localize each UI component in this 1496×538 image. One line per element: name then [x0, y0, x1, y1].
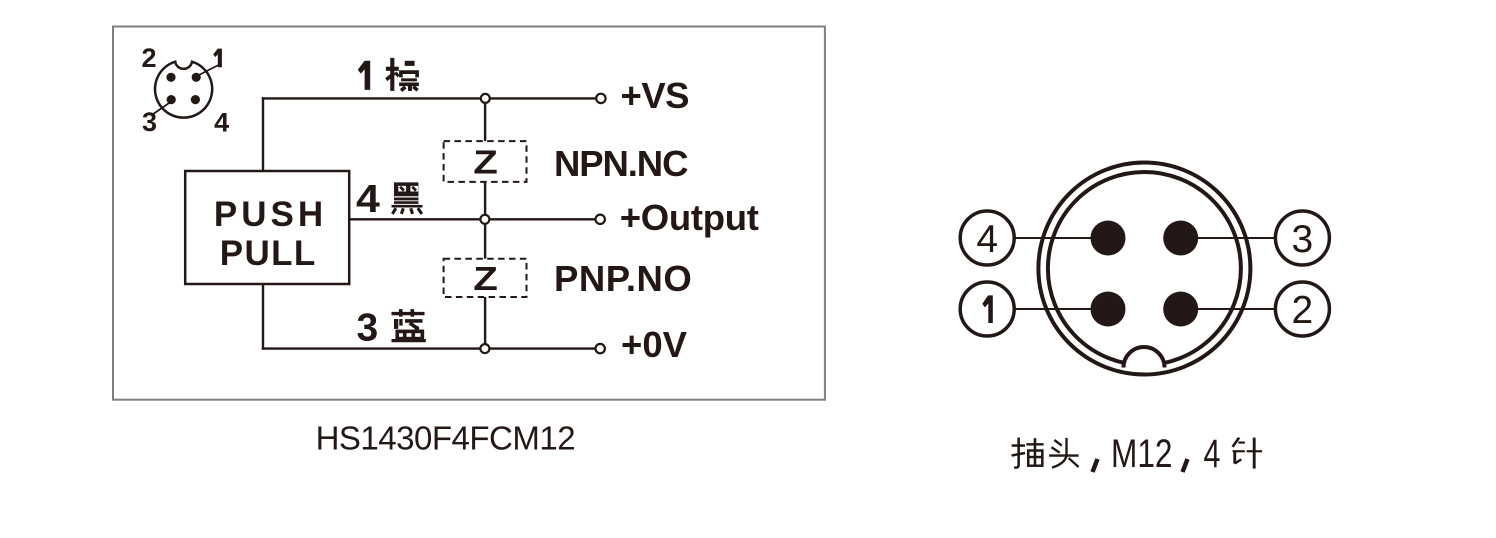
callout circle 3: [1275, 211, 1329, 265]
svg-text:PULL: PULL: [220, 234, 317, 273]
caption text 4: [1204, 431, 1221, 476]
label wire 1 digit: [358, 61, 371, 90]
svg-text:3: 3: [1292, 218, 1314, 261]
M12 plug face: inner ring: [1048, 172, 1241, 365]
leader line pin1: [199, 65, 220, 76]
terminal +0V: [596, 344, 605, 353]
plug pin bottom-left: [1091, 292, 1126, 327]
wire: riser from PUSH PULL top: [262, 97, 264, 171]
comma 2: [1183, 459, 1188, 472]
wire: black (4) output: [349, 218, 596, 220]
wire: riser from PUSH PULL bottom: [262, 284, 264, 350]
svg-text:+Output: +Output: [620, 197, 759, 238]
wire: vertical bus through Z elements: [484, 98, 486, 348]
pin dots of small connector: [166, 73, 200, 104]
caption text M12: [1111, 430, 1172, 475]
svg-text:PNP.NO: PNP.NO: [554, 258, 692, 299]
svg-text:+VS: +VS: [621, 75, 690, 116]
lead line pin4: [987, 237, 1108, 239]
svg-text:NPN.NC: NPN.NC: [554, 143, 688, 184]
svg-text:4: 4: [1204, 431, 1221, 476]
svg-text:PUSH: PUSH: [214, 195, 327, 234]
svg-text:3: 3: [142, 107, 157, 137]
plug pin top-right: [1163, 221, 1198, 256]
connector icon (M12 face, small): [155, 62, 212, 118]
svg-text:3: 3: [357, 306, 379, 349]
leader line pin3: [153, 101, 173, 115]
label wire 1 colour (brown glyph): [386, 58, 419, 91]
svg-text:4: 4: [976, 218, 998, 261]
callout circle 4: [960, 211, 1014, 265]
svg-text:4: 4: [356, 177, 380, 221]
plug pin top-left: [1091, 221, 1126, 256]
node on wire 3: [480, 344, 489, 353]
node on wire 1: [481, 94, 490, 103]
lead line pin1: [987, 308, 1108, 310]
label wire 4 colour (black glyph): [392, 182, 423, 214]
svg-text:4: 4: [214, 108, 229, 138]
callout circle 1: [960, 282, 1014, 336]
suppressor Z2 (dashed box): [444, 259, 527, 297]
svg-text:2: 2: [141, 43, 156, 73]
label wire 3 colour (blue glyph): [392, 309, 426, 341]
terminal +Output: [596, 215, 605, 224]
svg-text:HS1430F4FCM12: HS1430F4FCM12: [316, 419, 575, 456]
label wire 4 digit: [356, 177, 380, 221]
lead line pin2: [1181, 308, 1302, 310]
M12 plug face: outer ring: [1038, 163, 1250, 375]
caption plug glyph (cha): [1012, 438, 1044, 468]
wire: brown (1) to +VS: [262, 97, 597, 99]
lead line pin3: [1181, 237, 1302, 239]
svg-text:2: 2: [1292, 289, 1314, 332]
svg-text:Z: Z: [473, 260, 498, 297]
terminal +VS: [596, 94, 605, 103]
svg-text:Z: Z: [473, 144, 498, 181]
callout circle 2: [1275, 282, 1329, 336]
comma 1: [1093, 459, 1098, 472]
caption plug glyph (tou): [1049, 438, 1079, 468]
PUSH PULL driver block U1: [185, 171, 349, 284]
node on wire 4: [480, 215, 489, 224]
svg-text:+0V: +0V: [621, 324, 688, 365]
suppressor Z1 (dashed box): [444, 141, 527, 182]
plug pin bottom-right: [1163, 292, 1198, 327]
wire: blue (3) to 0V: [262, 347, 596, 349]
pin number 1: [213, 49, 222, 68]
keyway notch: [1123, 347, 1164, 368]
svg-text:M12: M12: [1111, 430, 1172, 475]
caption pin glyph (zhen): [1233, 438, 1263, 469]
